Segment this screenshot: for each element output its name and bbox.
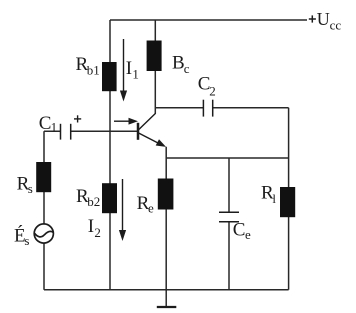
label Rs: [17, 174, 33, 197]
capacitor C2: [203, 100, 212, 117]
svg-text:b1: b1: [87, 63, 100, 78]
wire emitter rail (Re branch): [165, 147, 167, 290]
svg-text:I: I: [88, 216, 94, 237]
source Es circle: [34, 224, 53, 243]
transistor VT emitter lead with arrow: [139, 133, 166, 147]
arrow current I1: [120, 39, 127, 102]
svg-text:I: I: [126, 58, 132, 79]
label +Ucc: [309, 9, 342, 32]
label I1: [126, 58, 139, 81]
wire left bias rail (Rb1/Rb2 branch): [109, 20, 111, 290]
wire C1 to base: [71, 130, 138, 132]
svg-text:C: C: [39, 113, 52, 134]
wire emitter node horizontal: [166, 157, 288, 159]
label Rb2: [76, 186, 100, 209]
transistor VT collector lead: [139, 113, 156, 129]
source Es sine wave: [35, 231, 53, 237]
resistor R1: [280, 187, 295, 217]
svg-text:C: C: [233, 220, 246, 241]
wire top supply rail: [110, 19, 307, 21]
label C1: [39, 113, 57, 135]
wire source branch (Rs/Es): [43, 131, 45, 224]
svg-text:B: B: [172, 53, 185, 74]
wire right output rail (R1 branch): [288, 108, 290, 290]
capacitor C1: [61, 124, 71, 140]
svg-text:cc: cc: [330, 17, 342, 32]
svg-text:e: e: [245, 227, 251, 242]
label Es: [14, 225, 29, 249]
capacitor Ce: [219, 212, 239, 222]
resistor Rb2: [102, 183, 117, 213]
svg-text:b2: b2: [87, 194, 100, 209]
svg-text:s: s: [24, 233, 29, 248]
wire collector to C2 left: [155, 107, 203, 109]
svg-text:2: 2: [209, 84, 216, 99]
arrow current I2: [119, 179, 126, 241]
ground: [157, 290, 177, 307]
label I2: [88, 216, 101, 240]
label Rb1: [76, 54, 100, 77]
polarity plus of C1: [74, 115, 81, 122]
svg-text:1: 1: [132, 66, 139, 81]
svg-text:U: U: [317, 9, 330, 29]
wire input corner to C1: [44, 130, 60, 132]
label Re: [137, 193, 154, 215]
svg-text:e: e: [148, 201, 154, 216]
wire C2 right to output corner: [213, 107, 289, 109]
resistor Rs: [36, 162, 51, 192]
transistor VT base bar: [137, 123, 140, 140]
wire Ce branch lower: [228, 222, 230, 290]
resistor Rb1: [102, 62, 117, 91]
wire collector rail (Bc branch): [154, 20, 156, 114]
label Ce: [233, 220, 251, 243]
svg-text:1: 1: [51, 120, 58, 135]
wire Es to bottom rail: [43, 243, 45, 290]
resistor Re: [158, 179, 174, 210]
svg-text:2: 2: [94, 225, 101, 240]
label R1: [261, 182, 276, 205]
label C2: [198, 74, 216, 99]
label Bc: [172, 53, 190, 77]
wire bottom ground rail: [44, 289, 289, 291]
svg-text:l: l: [272, 191, 276, 206]
svg-text:s: s: [28, 181, 33, 196]
arrow base current into transistor: [114, 118, 138, 125]
resistor Bc: [147, 41, 162, 72]
wire Ce branch upper: [228, 158, 230, 212]
svg-text:c: c: [184, 61, 190, 76]
